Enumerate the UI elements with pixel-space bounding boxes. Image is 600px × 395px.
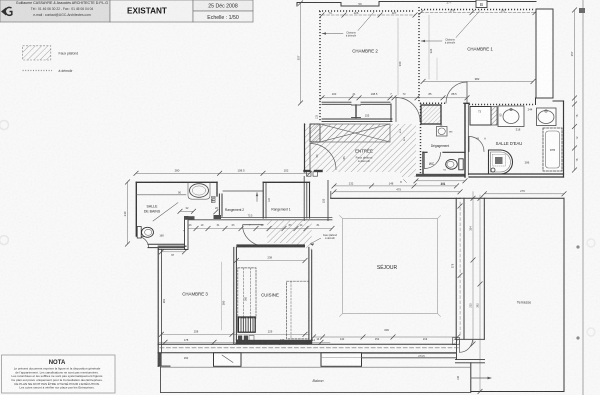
238 dim: [236, 260, 305, 262]
SdB walls: [136, 181, 217, 183]
degagement closet: [421, 105, 441, 124]
glazing to terrasse: [455, 198, 457, 339]
toilet: [137, 227, 141, 239]
shower: [489, 150, 513, 174]
chambre1 door: [466, 82, 468, 103]
97 dim: [161, 251, 184, 253]
entree ceiling hatch: [305, 124, 416, 177]
page fold line right: [582, 0, 584, 395]
legend: [23, 46, 79, 73]
bottom dim rows: [161, 333, 309, 335]
faux plafond rect: [343, 219, 438, 314]
sink: [188, 183, 210, 200]
top wall: [331, 197, 460, 199]
right dim: [574, 10, 576, 170]
corridor to sejour: [303, 176, 305, 220]
demolition dotted walls: [319, 10, 415, 12]
32 + 20 dims: [180, 210, 194, 212]
SdB right wall + steps: [216, 182, 218, 196]
tub: [543, 128, 562, 171]
L wall left of corridor: [185, 217, 189, 250]
lave-mains: [437, 127, 448, 137]
dim line chambre2 top: [322, 14, 415, 16]
corridor south lines: [220, 217, 332, 219]
right wall wc / salle d'eau: [464, 105, 466, 178]
right counter dashed: [287, 281, 309, 339]
wall segs + frames at corridor top: [305, 170, 310, 172]
382 dim: [423, 81, 533, 83]
wall segment right with label: [362, 352, 456, 354]
duct striped: [238, 317, 255, 332]
left dim: [127, 182, 129, 244]
entree left wall: [304, 124, 306, 172]
bottom wall of degagement/wc: [416, 174, 465, 177]
counter + diagonal: [136, 194, 186, 196]
corridor dim row: [186, 228, 332, 230]
bottom + right walls: [469, 173, 564, 175]
logo: [1, 8, 6, 16]
tall cabinet dashed: [238, 268, 256, 318]
outer top wall: [297, 2, 476, 7]
title block: [0, 0, 253, 22]
window bays: [214, 353, 242, 367]
vertical dims right: [472, 192, 474, 345]
sejour SE corner door to terrasse: [453, 338, 460, 345]
inner vertical dims: [397, 18, 399, 95]
top dim row: [136, 172, 310, 174]
kitchen right wall: [308, 247, 310, 344]
I column: [355, 105, 357, 118]
dim line chambre1 top: [421, 12, 535, 14]
closet 73: [470, 107, 491, 126]
sink 1: [498, 106, 524, 127]
kitchen separation wall: [233, 247, 235, 344]
wall above entree: [322, 118, 392, 120]
bottom dim chambre2: [322, 97, 467, 99]
NOTA block: [2, 355, 116, 393]
chambre2 door to hall: [395, 98, 397, 122]
dim below: [416, 180, 465, 182]
kitchen top wall: [236, 244, 305, 247]
sink 2: [537, 108, 557, 126]
rangement 2: [223, 190, 263, 192]
top dims: [334, 185, 457, 187]
rangement 1: [262, 182, 264, 218]
post: [390, 104, 392, 121]
entree-corridor door: [309, 144, 311, 170]
door: [468, 137, 470, 152]
WC: [422, 152, 424, 175]
chambre3 walls: [157, 248, 159, 366]
wall under bedrooms: [322, 101, 351, 103]
balcon: [161, 366, 471, 368]
right thick wall: [536, 9, 553, 98]
left dim: [300, 3, 302, 103]
dark cross band: [310, 124, 320, 142]
